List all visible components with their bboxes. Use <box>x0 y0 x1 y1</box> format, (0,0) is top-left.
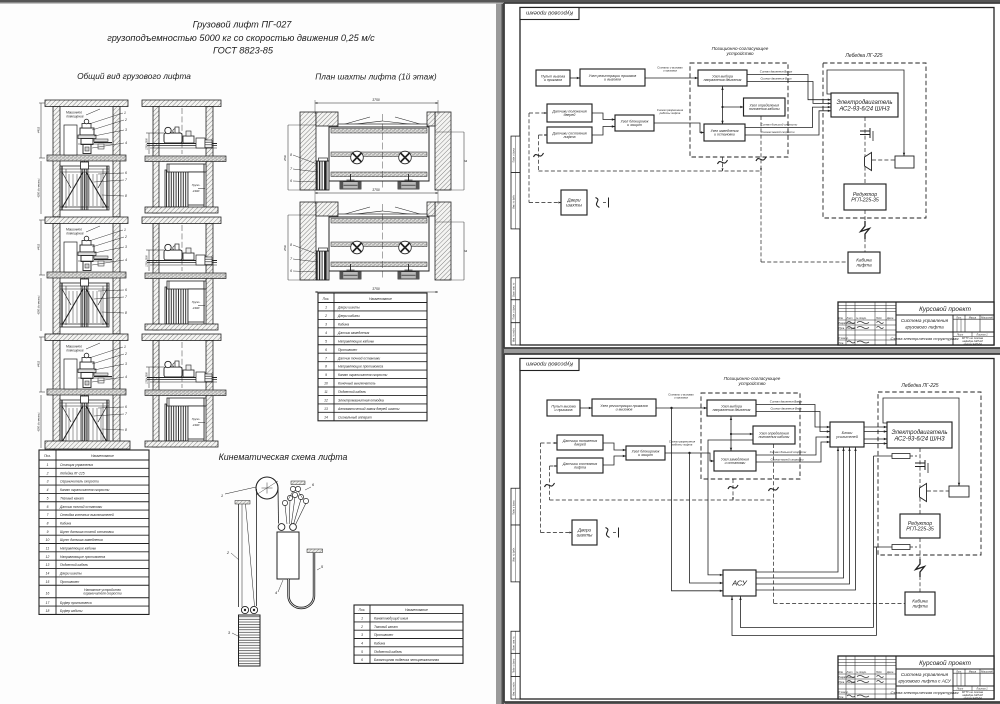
svg-text:положения кабины: положения кабины <box>749 107 780 111</box>
diagonal braces <box>62 172 83 208</box>
center axis <box>382 114 384 188</box>
wires2: большой/малой скорости <box>756 437 830 455</box>
table parts list at 318,293 <box>318 293 427 421</box>
cabin with braces below slab <box>60 166 109 210</box>
block: двери шахты <box>561 190 587 215</box>
редуктор -> кабина break 2 <box>919 538 921 560</box>
machine assembly <box>164 133 182 143</box>
svg-text:6: 6 <box>47 505 49 509</box>
svg-text:6: 6 <box>361 658 363 662</box>
block2: электродвигатель <box>887 422 952 448</box>
svg-text:Изм: Изм <box>839 671 844 674</box>
left column stamps <box>511 136 520 172</box>
gate slats <box>68 408 70 440</box>
winch machine <box>80 245 94 252</box>
lift front view: ceiling beam <box>45 217 128 224</box>
wires into АСУ left <box>672 408 724 591</box>
brake symbol <box>860 130 870 132</box>
wire: регистрация -> узел выбора <box>645 77 698 79</box>
svg-text:4: 4 <box>125 258 127 262</box>
svg-text:Направляющие кабины: Направляющие кабины <box>60 547 97 551</box>
wires: сигнал большой/малой скорости <box>745 107 831 127</box>
drawing sheet paper <box>504 354 1000 702</box>
svg-text:2800: 2800 <box>283 155 287 162</box>
wall right <box>113 224 120 334</box>
svg-text:Лебедка ЛГ-225: Лебедка ЛГ-225 <box>59 471 85 475</box>
wall left <box>53 341 60 451</box>
svg-text:6: 6 <box>325 348 327 352</box>
svg-text:Дата: Дата <box>886 317 894 320</box>
svg-text:6: 6 <box>125 171 127 175</box>
callout leaders 1-4 <box>89 113 123 124</box>
svg-text:помещение: помещение <box>66 115 83 119</box>
svg-text:4200 (до ямины): 4200 (до ямины) <box>38 412 41 431</box>
block2: датчики положения дверей <box>557 435 603 450</box>
svg-text:План шахты лифта (1й этаж): План шахты лифта (1й этаж) <box>315 72 437 82</box>
svg-text:Сигнал малой скорости: Сигнал малой скорости <box>761 130 794 134</box>
callouts 6 7 8 <box>98 290 124 291</box>
center axis <box>382 204 384 278</box>
svg-text:Тяговый канат: Тяговый канат <box>60 496 84 500</box>
svg-text:Кабина: Кабина <box>60 521 71 525</box>
bottom dim of plan2 <box>315 291 438 293</box>
machine room floor slab <box>47 155 126 161</box>
svg-text:Балансирная подвеска четырехка: Балансирная подвеска четырехканатная <box>374 658 439 662</box>
counterweight left <box>317 251 330 280</box>
svg-text:Грузо-: Грузо- <box>192 300 201 304</box>
title block <box>838 302 994 345</box>
kinematic: drive sheave item 1 <box>256 477 278 499</box>
svg-text:Схема электрическая структурна: Схема электрическая структурная <box>890 690 959 695</box>
shaft plan walls <box>300 112 316 190</box>
svg-text:РГЛ-225-35: РГЛ-225-35 <box>906 527 934 533</box>
door contact symbol <box>596 198 600 208</box>
svg-text:Сигнал движения Вниз: Сигнал движения Вниз <box>770 407 802 411</box>
block2: кабина лифта <box>905 592 935 615</box>
wire2: выбор-определения vertical <box>730 416 732 451</box>
wires2: движение вверх/вниз в усилители <box>756 405 830 428</box>
svg-text:6: 6 <box>125 405 127 409</box>
counterweight left <box>317 161 330 190</box>
svg-text:Наименование: Наименование <box>369 297 392 301</box>
wire: датчики -> блокировок <box>592 113 615 120</box>
dashed box: позиционно-согласующее устройство <box>690 63 788 157</box>
svg-text:и защит: и защит <box>627 123 642 127</box>
brake symbol 2 <box>915 462 925 464</box>
svg-text:Противовес: Противовес <box>374 633 394 637</box>
dashed box: лебедка ЛГ-225 <box>823 63 926 218</box>
bottom rope spools <box>340 272 361 280</box>
left column stamps <box>511 488 520 525</box>
svg-text:и вызовов: и вызовов <box>604 78 621 82</box>
svg-text:Лист: Лист <box>846 317 853 320</box>
svg-text:2400: 2400 <box>192 306 200 310</box>
svg-text:Подп. и дата: Подп. и дата <box>513 658 516 673</box>
counterweight pulleys <box>241 606 248 613</box>
svg-text:2: 2 <box>124 235 127 239</box>
dashed horizontal collector y=171 <box>539 170 763 172</box>
dim bracket left <box>148 133 150 154</box>
tacho block <box>895 156 914 168</box>
machine room floor slab <box>47 272 126 278</box>
svg-text:2: 2 <box>124 118 127 122</box>
lift side view: ceiling beam <box>142 100 221 107</box>
floor slab <box>145 390 226 396</box>
svg-text:Наименование: Наименование <box>91 454 114 458</box>
svg-text:18: 18 <box>46 609 50 613</box>
gate slats <box>68 174 70 206</box>
svg-text:направления движения: направления движения <box>704 78 742 82</box>
counterweight guides item 2 <box>235 501 250 505</box>
svg-text:Автоматический замок дверей ша: Автоматический замок дверей шахты <box>337 407 400 411</box>
wires2: датчики -> блокировок <box>603 443 626 450</box>
pit floor <box>145 441 218 447</box>
machine assembly <box>164 367 182 377</box>
block2: узел блокировок <box>626 446 665 460</box>
svg-text:2400: 2400 <box>192 189 200 193</box>
svg-text:Масштаб: Масштаб <box>981 316 993 319</box>
svg-text:Лит.: Лит. <box>955 316 962 319</box>
cabin rectangle <box>329 217 429 271</box>
svg-text:Масса: Масса <box>969 670 977 673</box>
svg-text:Система управления: Система управления <box>901 672 949 677</box>
svg-text:дверей: дверей <box>564 113 576 117</box>
svg-text:Буфер кабины: Буфер кабины <box>60 609 83 613</box>
floor slab <box>145 273 226 279</box>
svg-text:Датчик замедления: Датчик замедления <box>337 331 369 335</box>
svg-text:направления движения: направления движения <box>713 408 751 412</box>
svg-text:Противовес: Противовес <box>338 348 358 352</box>
pit floor <box>145 324 218 330</box>
svg-text:2: 2 <box>360 625 363 629</box>
svg-text:16: 16 <box>46 591 50 595</box>
wall right <box>206 341 213 443</box>
svg-text:РГЛ-225-35: РГЛ-225-35 <box>851 198 879 204</box>
svg-text:№ докум.: № докум. <box>856 671 867 674</box>
wire: определения -> выбор <box>723 106 744 108</box>
dimension 3750 <box>315 102 438 104</box>
feedback wire motor-tacho 2 <box>883 398 959 486</box>
block2: пульт вызова и приказов <box>547 400 580 416</box>
machine room floor slab <box>47 389 126 395</box>
wall left <box>53 107 60 217</box>
counterweight ropes dense lines <box>165 404 188 441</box>
svg-text:Лебедка ЛГ-225: Лебедка ЛГ-225 <box>844 53 882 59</box>
svg-text:помещение: помещение <box>66 349 83 353</box>
svg-text:ограничителя скорости: ограничителя скорости <box>83 591 121 595</box>
svg-text:1: 1 <box>325 306 327 310</box>
svg-text:дверей: дверей <box>574 443 586 447</box>
block2: АСУ <box>723 570 756 596</box>
svg-text:грузоподъемностью 5000 кг со с: грузоподъемностью 5000 кг со скоростью д… <box>107 33 375 43</box>
lift general view column 2 <box>142 100 226 213</box>
svg-text:Станция управления: Станция управления <box>60 463 93 467</box>
block: датчики состояния лифта <box>547 127 592 143</box>
svg-text:Кабина: Кабина <box>374 641 385 645</box>
svg-text:Отводка конечных выключателей: Отводка конечных выключателей <box>60 513 114 517</box>
wall left <box>153 107 159 214</box>
block2: узел выбора направления <box>707 400 756 416</box>
svg-text:Н.контр.: Н.контр. <box>839 337 849 340</box>
lift front view: ceiling beam <box>45 334 128 341</box>
center axis dashed <box>181 225 183 271</box>
dim bracket left <box>148 367 150 388</box>
svg-text:Сигнал движения Вверх: Сигнал движения Вверх <box>760 70 793 74</box>
svg-text:8: 8 <box>290 153 292 157</box>
svg-text:Подвесной кабель: Подвесной кабель <box>60 563 88 567</box>
svg-text:№ докум.: № докум. <box>856 317 867 320</box>
wires2: пульт->регистрация->выбор <box>580 407 592 409</box>
svg-text:2: 2 <box>46 471 49 475</box>
lift front view: ceiling beam <box>45 100 128 107</box>
svg-text:лифта: лифта <box>563 135 576 139</box>
svg-text:3: 3 <box>125 245 127 249</box>
svg-text:Двери шахты: Двери шахты <box>337 306 360 310</box>
block: узел замедления и остановки <box>704 124 745 141</box>
block2: узел регистрации <box>592 399 656 416</box>
svg-text:грузового лифта: грузового лифта <box>905 324 944 329</box>
rope/column center <box>80 278 82 327</box>
cabin posts <box>61 400 63 444</box>
door opening leaves <box>338 207 370 216</box>
svg-text:1: 1 <box>361 617 363 621</box>
cabin with braces below slab <box>60 283 109 327</box>
svg-text:6: 6 <box>290 179 292 183</box>
svg-text:Электродвигатель: Электродвигатель <box>836 100 892 106</box>
svg-text:3: 3 <box>325 322 327 326</box>
lift side view: ceiling beam <box>142 217 221 224</box>
block2: редуктор <box>900 514 940 538</box>
callouts 8 7 6 <box>293 245 317 254</box>
block2: узел определения положения <box>753 426 795 444</box>
svg-text:Пров.: Пров. <box>839 327 846 330</box>
svg-text:Подп. и дата: Подп. и дата <box>513 147 516 162</box>
svg-text:Канат ограничителя скорости: Канат ограничителя скорости <box>60 488 110 492</box>
callouts 8 7 6 <box>293 155 317 164</box>
wires: сигнал движения вверх/вниз <box>747 75 831 100</box>
title block <box>838 656 994 699</box>
svg-text:Система управления: Система управления <box>901 318 949 323</box>
callouts 6 7 8 <box>98 173 124 174</box>
control station rect <box>64 125 77 155</box>
svg-text:4: 4 <box>361 641 363 645</box>
block: датчики положения дверей <box>547 104 592 122</box>
svg-text:11: 11 <box>46 547 50 551</box>
winch machine <box>80 128 94 135</box>
svg-text:8: 8 <box>125 311 127 315</box>
hanging cable item 5 <box>307 549 323 553</box>
wires2: усилители -> двигатель 4 lines <box>864 426 887 428</box>
side dimension lines <box>287 125 289 190</box>
wall right <box>206 107 213 209</box>
svg-text:3750: 3750 <box>372 287 380 291</box>
motor shaft dashed down <box>864 117 866 184</box>
svg-text:8: 8 <box>125 428 127 432</box>
control station rect <box>64 242 77 272</box>
svg-text:2400: 2400 <box>192 423 200 427</box>
svg-text:Сигнал малой скорости: Сигнал малой скорости <box>770 457 803 461</box>
dashed box 2: позиционно-согласующее устройство <box>701 393 800 479</box>
svg-text:15: 15 <box>46 580 50 584</box>
svg-text:Лебедка ЛГ-225: Лебедка ЛГ-225 <box>900 383 938 389</box>
svg-text:8: 8 <box>325 365 327 369</box>
cabin with braces below slab <box>60 400 109 444</box>
wall right <box>113 107 120 217</box>
wall right <box>113 341 120 451</box>
cabin box <box>167 164 206 172</box>
svg-text:Шунт датчика замедления: Шунт датчика замедления <box>60 538 103 542</box>
svg-text:Общий вид грузового лифта: Общий вид грузового лифта <box>77 71 191 81</box>
svg-text:Курсовой проект: Курсовой проект <box>526 9 573 16</box>
corner stamp rotated <box>520 8 579 20</box>
svg-text:1200х1000: 1200х1000 <box>147 372 149 384</box>
svg-text:3: 3 <box>47 480 49 484</box>
svg-text:4200 (до ямины): 4200 (до ямины) <box>38 295 41 314</box>
svg-text:Курсовой проект: Курсовой проект <box>919 305 972 313</box>
motor shaft dashed down 2 <box>919 448 921 514</box>
svg-text:4453: 4453 <box>37 360 41 367</box>
svg-text:ГОСТ 8823-85: ГОСТ 8823-85 <box>213 46 274 56</box>
svg-text:Утв.: Утв. <box>839 696 845 699</box>
wire2: блокировок -> замедления <box>665 453 714 461</box>
block: электродвигатель <box>831 93 898 117</box>
gate slats <box>68 291 70 323</box>
rope/column center <box>80 395 82 444</box>
svg-text:работы лифта: работы лифта <box>671 442 693 446</box>
feedback verticals to АСУ bottom <box>873 456 875 628</box>
dashed left loop verticals <box>538 135 540 171</box>
winch machine <box>80 362 94 369</box>
svg-text:лифта: лифта <box>911 604 928 609</box>
dashed feedback: кабина2 -> датчики <box>773 444 775 604</box>
shaft plan floor 2 <box>283 188 468 280</box>
counterweight stack item 3 <box>239 615 261 666</box>
svg-text:1200х1000: 1200х1000 <box>147 255 149 267</box>
svg-text:Схема электрическая структурна: Схема электрическая структурная <box>890 336 959 341</box>
svg-text:2800: 2800 <box>283 245 287 252</box>
svg-text:и приказов: и приказов <box>554 408 572 412</box>
svg-text:4: 4 <box>47 488 49 492</box>
svg-text:Масштаб: Масштаб <box>981 670 993 673</box>
svg-text:14: 14 <box>46 572 50 576</box>
svg-text:12: 12 <box>46 555 50 559</box>
svg-text:10: 10 <box>46 538 50 542</box>
svg-text:5: 5 <box>47 496 49 500</box>
resistor couplers (датчики скорости) <box>874 455 893 457</box>
svg-text:9: 9 <box>325 373 327 377</box>
svg-text:7: 7 <box>125 295 127 299</box>
wire: пульт -> регистрация <box>570 77 580 79</box>
svg-text:11: 11 <box>324 390 328 394</box>
svg-text:Двери шахты: Двери шахты <box>59 572 82 576</box>
block: узел определения положения кабины <box>744 98 786 116</box>
svg-text:Ограничитель скорости: Ограничитель скорости <box>60 480 99 484</box>
svg-text:9: 9 <box>47 530 49 534</box>
svg-text:Утв.: Утв. <box>839 342 845 345</box>
pit floor <box>145 207 218 213</box>
svg-text:и приказах: и приказах <box>674 395 689 399</box>
svg-text:Направляющие противовеса: Направляющие противовеса <box>60 555 105 559</box>
svg-text:Грузо-: Грузо- <box>192 417 201 421</box>
inner frame <box>520 8 994 346</box>
svg-text:усилителей: усилителей <box>835 435 859 439</box>
svg-text:лифта: лифта <box>573 466 586 470</box>
door opening leaves <box>338 117 370 126</box>
feedback wire motor-tacho <box>827 70 904 156</box>
svg-text:4: 4 <box>125 141 127 145</box>
block: узел регистрации приказов и вызовов <box>580 69 645 86</box>
svg-text:3750: 3750 <box>372 98 380 102</box>
cabin item 4 <box>277 532 299 579</box>
svg-text:АС2-93-6/24 Ш/Н3: АС2-93-6/24 Ш/Н3 <box>893 436 945 442</box>
svg-text:3750: 3750 <box>372 188 380 192</box>
svg-text:3: 3 <box>125 362 127 366</box>
block: пульт вызова и приказов <box>536 70 570 86</box>
svg-text:7: 7 <box>47 513 49 517</box>
callouts 6 7 8 <box>98 407 124 408</box>
svg-text:4: 4 <box>125 375 127 379</box>
svg-text:Поз.: Поз. <box>359 608 366 612</box>
cabin rectangle <box>329 127 429 181</box>
svg-text:работы лифта: работы лифта <box>659 111 681 115</box>
svg-text:8: 8 <box>125 194 127 198</box>
center axis dashed <box>181 342 183 388</box>
svg-text:Инв. № дубл.: Инв. № дубл. <box>513 194 516 208</box>
редуктор -> кабина break <box>864 210 866 222</box>
drawing sheet paper <box>504 3 1000 348</box>
svg-text:Подп: Подп <box>876 671 882 674</box>
wire: блокировок -> замедления <box>654 123 704 133</box>
callout leaders 1-4 <box>89 347 123 358</box>
svg-text:7: 7 <box>290 257 292 261</box>
cabin box <box>167 281 206 289</box>
inner frame <box>520 359 994 700</box>
svg-text:14: 14 <box>324 415 328 419</box>
svg-text:Лист: Лист <box>846 671 853 674</box>
counterweight ropes dense lines <box>165 170 188 207</box>
lift side view: ceiling beam <box>142 334 221 341</box>
svg-text:Взам. инв. №: Взам. инв. № <box>513 282 516 297</box>
АСУ right wires to усилители <box>756 447 838 572</box>
block: редуктор РГЛ-225-35 <box>844 184 886 210</box>
rope/column center <box>80 161 82 210</box>
svg-text:13: 13 <box>324 407 328 411</box>
diagonal braces <box>62 406 83 442</box>
block: узел выбора направления движения <box>698 70 747 86</box>
pit bottom slab <box>45 441 130 449</box>
svg-text:Двери кабины: Двери кабины <box>337 314 360 318</box>
svg-text:1: 1 <box>124 345 126 349</box>
svg-text:Сигнал большой скорости: Сигнал большой скорости <box>761 123 798 127</box>
svg-text:10: 10 <box>324 382 328 386</box>
svg-text:3: 3 <box>125 128 127 132</box>
shaft plan floor 1 <box>283 98 468 190</box>
wall left <box>153 224 159 331</box>
shaft plan walls <box>300 202 316 280</box>
svg-text:8: 8 <box>290 243 292 247</box>
callout leaders 1-4 <box>89 230 123 241</box>
svg-text:1: 1 <box>124 228 126 232</box>
svg-text:Сигнал движения Вверх: Сигнал движения Вверх <box>770 400 803 404</box>
svg-text:4453: 4453 <box>37 126 41 133</box>
wall left <box>153 341 159 448</box>
svg-text:Подвесной кабель: Подвесной кабель <box>374 650 402 654</box>
svg-text:Грузовой лифт ПГ-027: Грузовой лифт ПГ-027 <box>193 19 293 29</box>
svg-text:и остановки: и остановки <box>725 461 746 465</box>
svg-text:положения кабины: положения кабины <box>759 435 790 439</box>
svg-text:Кабина: Кабина <box>338 322 349 326</box>
dimension 3750 <box>315 192 438 194</box>
